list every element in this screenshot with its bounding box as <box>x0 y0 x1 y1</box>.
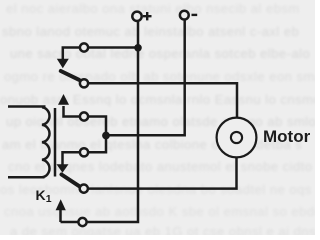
svg-text:K: K <box>36 187 46 203</box>
svg-text:Motor: Motor <box>263 127 311 146</box>
svg-text:1: 1 <box>46 193 52 205</box>
